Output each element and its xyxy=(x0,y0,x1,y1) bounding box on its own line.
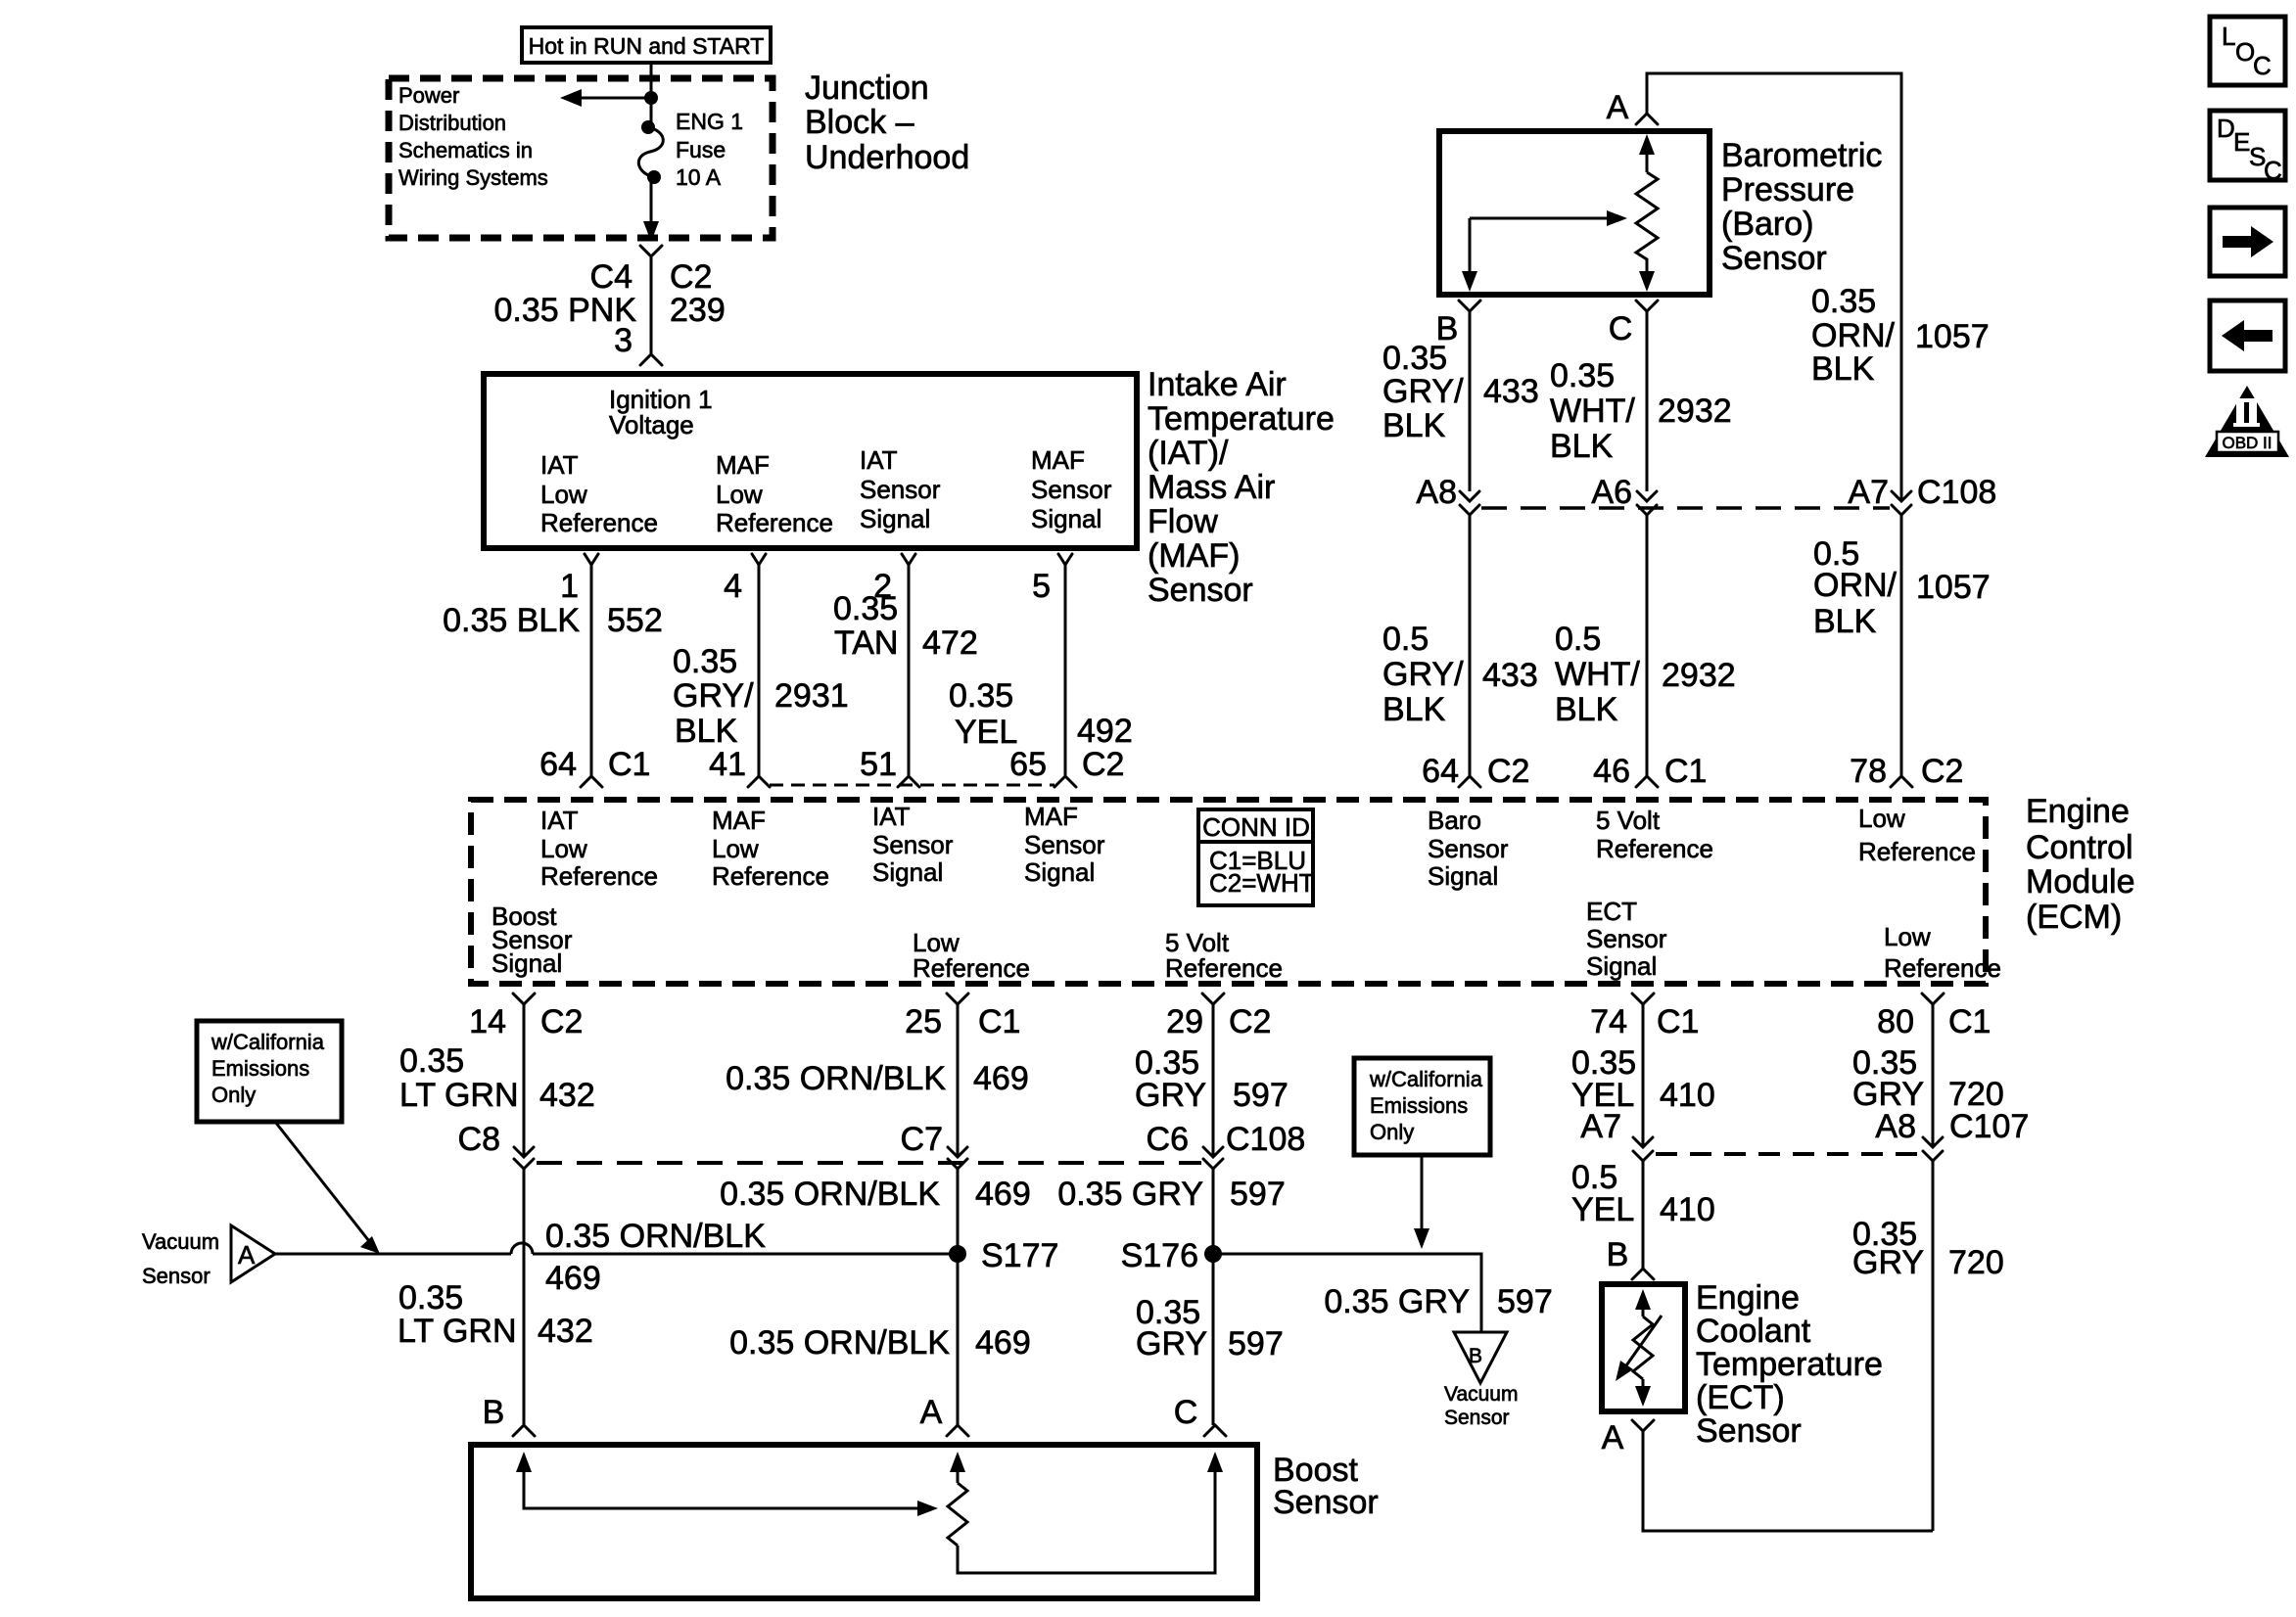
ECM pin label: Baro Sensor Signal xyxy=(1428,806,1509,891)
svg-text:Underhood: Underhood xyxy=(805,139,969,176)
svg-text:Sensor: Sensor xyxy=(1148,572,1253,609)
svg-text:C2=WHT: C2=WHT xyxy=(1209,868,1315,898)
svg-text:0.35 ORN/BLK: 0.35 ORN/BLK xyxy=(545,1218,766,1255)
label: 0.35 ORN/BLK 469 (lower) xyxy=(729,1324,1031,1362)
label: 0.5 YEL 410 (lower) xyxy=(1571,1159,1715,1228)
svg-text:239: 239 xyxy=(670,292,726,329)
svg-text:Reference: Reference xyxy=(1884,953,2001,983)
svg-text:Low: Low xyxy=(712,834,759,863)
ECM pin label: Low Reference (bottom mid-left) xyxy=(913,928,1030,983)
svg-text:A8: A8 xyxy=(1875,1108,1916,1145)
svg-text:C107: C107 xyxy=(1949,1108,2029,1145)
svg-text:Flow: Flow xyxy=(1148,503,1218,540)
svg-text:2931: 2931 xyxy=(774,677,849,715)
wire: low reference mid to S177 and below (0.35 ORN/BLK 469) xyxy=(957,1169,960,1425)
svg-text:LT GRN: LT GRN xyxy=(398,1313,517,1350)
svg-text:Pressure: Pressure xyxy=(1721,171,1854,208)
splice S177 xyxy=(949,1237,1058,1274)
svg-text:B: B xyxy=(1607,1236,1629,1273)
label: 0.35 YEL 410 (upper) xyxy=(1571,1044,1715,1114)
svg-text:C1: C1 xyxy=(978,1003,1020,1040)
svg-text:C: C xyxy=(2264,156,2282,185)
in-line connector breaks at A7 (lower) xyxy=(1633,1137,1653,1161)
svg-text:Only: Only xyxy=(1370,1120,1414,1144)
svg-text:Reference: Reference xyxy=(712,861,829,891)
svg-text:Block –: Block – xyxy=(805,104,914,141)
svg-text:Module: Module xyxy=(2026,863,2135,901)
label: 0.35 ORN/BLK (on vacuum branch) xyxy=(545,1218,766,1255)
svg-text:Reference: Reference xyxy=(1858,837,1976,866)
svg-text:Control: Control xyxy=(2026,829,2133,866)
svg-text:Signal: Signal xyxy=(1031,504,1101,533)
wire: Baro B to in-line connector A8 (GRY/BLK 433) xyxy=(1469,311,1472,491)
label: pin A (ECT) xyxy=(1602,1419,1624,1456)
power feed box "Hot in RUN and START" xyxy=(522,27,771,63)
svg-text:GRY: GRY xyxy=(1136,1325,1207,1363)
svg-text:78: 78 xyxy=(1850,753,1887,790)
label: Vacuum Sensor (A) xyxy=(142,1229,219,1288)
svg-text:ORN/: ORN/ xyxy=(1813,567,1898,604)
svg-text:C4: C4 xyxy=(590,258,633,296)
icon: forward arrow box xyxy=(2210,208,2285,276)
label: 0.35 WHT/BLK 2932 xyxy=(1550,357,1732,465)
svg-text:WHT/: WHT/ xyxy=(1550,393,1635,430)
svg-text:Sensor: Sensor xyxy=(142,1264,211,1288)
in-line connector dashed line (C108 left section) xyxy=(537,1161,1201,1165)
svg-text:GRY/: GRY/ xyxy=(1382,373,1464,410)
svg-text:Engine: Engine xyxy=(2026,793,2130,830)
ECT sensor box xyxy=(1602,1284,1685,1411)
label: C7 xyxy=(901,1121,943,1158)
label: 0.35 GRY/BLK 433 xyxy=(1382,340,1539,444)
note: Power Distribution Schematics in Wiring Systems xyxy=(398,83,548,190)
svg-text:C: C xyxy=(2253,51,2272,80)
svg-text:Low: Low xyxy=(1858,804,1905,833)
svg-text:Sensor: Sensor xyxy=(1024,830,1105,859)
svg-text:0.35: 0.35 xyxy=(399,1042,464,1080)
svg-text:IAT: IAT xyxy=(860,445,898,475)
wire: hot feed into junction block xyxy=(650,62,653,125)
pin labels 64 C1 41 51 65 C2 (ECM top left) xyxy=(539,746,1124,783)
svg-text:MAF: MAF xyxy=(712,806,766,835)
svg-text:1057: 1057 xyxy=(1916,569,1991,606)
wire: pin 2 IAT signal (0.35 TAN 472) xyxy=(898,554,919,787)
wire: Baro pin A up and over to ECM pin 78 (ORN/BLK 1057) xyxy=(1636,73,1901,501)
ECM bottom pin break 74 C1 xyxy=(1590,993,1699,1040)
svg-text:C2: C2 xyxy=(1082,746,1124,783)
svg-text:597: 597 xyxy=(1497,1283,1553,1320)
svg-text:0.35 ORN/BLK: 0.35 ORN/BLK xyxy=(720,1176,940,1213)
svg-text:C1: C1 xyxy=(1664,753,1707,790)
svg-text:Low: Low xyxy=(716,480,763,509)
ECM pin label: IAT Sensor Signal xyxy=(872,802,954,887)
label: 0.35 GRY/BLK 2931 xyxy=(673,643,849,750)
label: 0.35 GRY 720 (upper) xyxy=(1852,1044,2004,1113)
svg-text:C2: C2 xyxy=(1487,753,1529,790)
svg-text:5: 5 xyxy=(1032,568,1051,605)
label: ENG 1 Fuse 10 A xyxy=(676,109,743,190)
svg-text:Power: Power xyxy=(398,83,459,108)
svg-text:Only: Only xyxy=(211,1083,256,1107)
svg-text:597: 597 xyxy=(1230,1176,1286,1213)
label: 0.35 GRY 597 (vacuum branch) xyxy=(1324,1283,1552,1320)
svg-text:Distribution: Distribution xyxy=(398,111,506,135)
svg-text:469: 469 xyxy=(975,1324,1031,1362)
svg-text:Junction: Junction xyxy=(805,69,929,107)
pin label: MAF Low Reference (sensor) xyxy=(716,450,833,537)
svg-text:Sensor: Sensor xyxy=(1696,1412,1802,1450)
pin labels A8 A6 A7 C108 (in-line connector) xyxy=(1416,474,1996,511)
note box: w/California Emissions Only (left) xyxy=(197,1021,342,1122)
ECM pin label: ECT Sensor Signal xyxy=(1586,897,1667,981)
svg-text:41: 41 xyxy=(709,746,746,783)
svg-text:469: 469 xyxy=(545,1260,601,1297)
pin label: MAF Sensor Signal (sensor) xyxy=(1031,445,1112,533)
svg-text:A7: A7 xyxy=(1580,1108,1621,1145)
svg-text:Barometric: Barometric xyxy=(1721,137,1882,174)
svg-text:Temperature: Temperature xyxy=(1148,400,1335,438)
ECM pin label: IAT Low Reference xyxy=(540,806,658,891)
label: Junction Block - Underhood xyxy=(805,69,969,176)
svg-text:Reference: Reference xyxy=(1165,953,1283,983)
off-page connector triangle A (vacuum sensor) xyxy=(231,1225,275,1282)
svg-text:Fuse: Fuse xyxy=(676,137,726,162)
svg-text:BLK: BLK xyxy=(1382,691,1446,728)
svg-text:LT GRN: LT GRN xyxy=(399,1077,519,1114)
arrow from California note to wire 469 xyxy=(275,1122,380,1254)
svg-text:D: D xyxy=(2217,114,2235,143)
svg-text:Mass Air: Mass Air xyxy=(1148,469,1275,506)
wire: fuse output down with arrow xyxy=(643,177,659,242)
svg-text:C6: C6 xyxy=(1147,1121,1189,1158)
svg-text:MAF: MAF xyxy=(1024,802,1078,831)
svg-text:433: 433 xyxy=(1483,373,1539,410)
wire: ECT signal lower (0.5 YEL 410) xyxy=(1642,1161,1645,1269)
svg-text:OBD II: OBD II xyxy=(2222,434,2272,452)
svg-text:410: 410 xyxy=(1660,1191,1715,1228)
svg-text:GRY: GRY xyxy=(1135,1077,1206,1114)
off-page connector triangle B (vacuum sensor) xyxy=(1454,1332,1507,1383)
svg-text:C7: C7 xyxy=(901,1121,943,1158)
label: Vacuum Sensor (B) xyxy=(1444,1383,1518,1429)
svg-text:Engine: Engine xyxy=(1696,1279,1800,1317)
svg-text:Wiring Systems: Wiring Systems xyxy=(398,165,548,190)
label: pin A (Baro) xyxy=(1607,89,1629,126)
svg-text:Signal: Signal xyxy=(1024,857,1095,887)
in-line connector dashed (sensor connector) xyxy=(770,784,1054,787)
label: 0.35 LT GRN 432 (upper) xyxy=(399,1042,595,1114)
svg-text:0.35: 0.35 xyxy=(1382,340,1447,377)
svg-text:Low: Low xyxy=(540,480,587,509)
Boost sensor box xyxy=(471,1445,1257,1598)
connector break above boost box pin C xyxy=(1174,1394,1226,1436)
label: 0.35 GRY 597 (middle) xyxy=(1057,1176,1285,1213)
svg-text:0.35 ORN/BLK: 0.35 ORN/BLK xyxy=(729,1324,950,1362)
label: Engine Control Module (ECM) xyxy=(2026,793,2135,936)
label: Engine Coolant Temperature (ECT) Sensor xyxy=(1696,1279,1883,1450)
connector break above boost box pin B xyxy=(483,1394,535,1436)
label: pin B (ECT) xyxy=(1607,1236,1629,1273)
label: Intake Air Temperature (IAT)/Mass Air Flow (MAF) Sensor xyxy=(1148,366,1335,609)
in-line connector breaks at A8 xyxy=(1460,491,1479,515)
svg-text:Sensor: Sensor xyxy=(1428,834,1509,863)
svg-text:MAF: MAF xyxy=(1031,445,1085,475)
in-line connector dashed line (C107) xyxy=(1656,1152,1921,1156)
svg-text:0.35 BLK: 0.35 BLK xyxy=(443,602,580,639)
svg-text:C1: C1 xyxy=(608,746,650,783)
svg-text:B: B xyxy=(1469,1345,1482,1367)
svg-text:C: C xyxy=(1609,310,1633,347)
label: Barometric Pressure (Baro) Sensor xyxy=(1721,137,1882,277)
in-line connector breaks at A7 xyxy=(1892,491,1911,515)
icon: back arrow box xyxy=(2210,300,2285,371)
label: 469 (below vacuum branch) xyxy=(545,1260,601,1297)
svg-text:2932: 2932 xyxy=(1662,657,1736,694)
svg-text:0.5: 0.5 xyxy=(1382,621,1429,658)
svg-text:0.35: 0.35 xyxy=(833,590,898,627)
svg-text:Reference: Reference xyxy=(1596,834,1713,863)
svg-text:0.35 ORN/BLK: 0.35 ORN/BLK xyxy=(726,1060,946,1097)
in-line connector breaks at C8 xyxy=(514,1147,534,1169)
Baro sensor box xyxy=(1439,131,1710,295)
svg-text:Intake Air: Intake Air xyxy=(1148,366,1287,403)
svg-text:Reference: Reference xyxy=(913,953,1030,983)
label: 0.35 PNK 239 xyxy=(493,292,725,329)
ECM bottom pin break 14 C2 xyxy=(469,993,583,1040)
svg-text:YEL: YEL xyxy=(1571,1191,1634,1228)
svg-text:TAN: TAN xyxy=(834,624,898,662)
ECM pin label: Boost Sensor Signal xyxy=(492,901,573,978)
svg-text:C1: C1 xyxy=(1948,1003,1991,1040)
wire: boost sensor signal lower (0.35 LT GRN 432) xyxy=(523,1169,526,1425)
svg-text:469: 469 xyxy=(975,1176,1031,1213)
svg-text:(Baro): (Baro) xyxy=(1721,206,1813,243)
svg-text:410: 410 xyxy=(1660,1077,1715,1114)
svg-text:29: 29 xyxy=(1166,1003,1203,1040)
icon: DESC reference box xyxy=(2210,111,2285,185)
connector break C2 (IAT/MAF sensor side) xyxy=(640,354,662,365)
wire: 0.5 GRY/BLK 433 to ECM 64 C2 xyxy=(1459,515,1480,787)
Boost internal: potentiometer resistor and pin C return xyxy=(948,1452,1223,1573)
wire: S176 to vacuum sensor B (0.35 GRY 597) xyxy=(1213,1254,1481,1332)
svg-text:IAT: IAT xyxy=(872,802,911,831)
svg-text:0.5: 0.5 xyxy=(1555,621,1601,658)
svg-text:C108: C108 xyxy=(1917,474,1996,511)
svg-text:Signal: Signal xyxy=(860,504,930,533)
label: 0.5 GRY/BLK 433 xyxy=(1382,621,1538,728)
svg-text:BLK: BLK xyxy=(1555,691,1618,728)
Boost internal: pin B feed and wiper arrow xyxy=(516,1452,938,1516)
connector break above ECT box xyxy=(1632,1269,1654,1279)
svg-text:46: 46 xyxy=(1593,753,1630,790)
svg-text:Temperature: Temperature xyxy=(1696,1346,1883,1383)
svg-text:E: E xyxy=(2233,127,2250,157)
svg-text:3: 3 xyxy=(614,322,633,359)
svg-text:80: 80 xyxy=(1877,1003,1914,1040)
svg-text:(ECT): (ECT) xyxy=(1696,1379,1785,1416)
wire: vacuum sensor A to S177 with hop over boost wire xyxy=(275,1243,958,1254)
label: Ignition 1 Voltage xyxy=(609,385,713,439)
svg-text:1: 1 xyxy=(560,568,579,605)
wire: ECT signal upper (0.35 YEL 410) xyxy=(1642,1004,1645,1147)
svg-text:Reference: Reference xyxy=(716,508,833,537)
svg-text:Low: Low xyxy=(1884,922,1931,951)
in-line connector breaks at C7 xyxy=(948,1147,967,1169)
ECM pin label: Low Reference (bottom right) xyxy=(1884,922,2001,983)
svg-text:597: 597 xyxy=(1228,1325,1284,1363)
svg-text:432: 432 xyxy=(539,1077,595,1114)
svg-text:552: 552 xyxy=(607,602,663,639)
svg-text:(IAT)/: (IAT)/ xyxy=(1148,435,1229,472)
label: 0.35 GRY 597 (upper) xyxy=(1135,1044,1289,1114)
wire: low reference upper (0.35 ORN/BLK 469) xyxy=(957,1004,960,1157)
svg-text:Coolant: Coolant xyxy=(1696,1313,1811,1350)
svg-text:Emissions: Emissions xyxy=(211,1056,309,1081)
svg-text:GRY: GRY xyxy=(1852,1244,1924,1281)
svg-text:C1: C1 xyxy=(1657,1003,1699,1040)
label: C8 xyxy=(458,1121,500,1158)
svg-text:Vacuum: Vacuum xyxy=(1444,1383,1518,1406)
svg-text:64: 64 xyxy=(1422,753,1459,790)
label: 0.5 WHT/BLK 2932 xyxy=(1555,621,1736,728)
label: 0.35 BLK 552 xyxy=(443,602,663,639)
svg-text:C2: C2 xyxy=(670,258,712,296)
svg-text:A: A xyxy=(238,1240,256,1270)
svg-text:Signal: Signal xyxy=(872,857,943,887)
svg-text:Sensor: Sensor xyxy=(1444,1407,1510,1429)
ECM bottom pin break 80 C1 xyxy=(1877,993,1991,1040)
splice S176 xyxy=(1121,1237,1222,1274)
Baro internal: potentiometer resistor with arrows xyxy=(1636,134,1658,292)
wire: branch arrow to other circuits xyxy=(560,89,651,107)
connector break below ECT box xyxy=(1632,1420,1654,1431)
svg-text:C108: C108 xyxy=(1226,1121,1305,1158)
label: C4 / C2 connector names xyxy=(590,258,713,296)
svg-text:Sensor: Sensor xyxy=(1721,240,1827,277)
pin numbers 1 4 2 5 xyxy=(560,568,1051,605)
CONN ID legend box xyxy=(1198,809,1315,905)
svg-text:ENG 1: ENG 1 xyxy=(676,109,743,134)
svg-text:ORN/: ORN/ xyxy=(1811,317,1896,354)
svg-text:51: 51 xyxy=(860,746,897,783)
label: pin B (Baro) xyxy=(1436,310,1459,347)
svg-text:BLK: BLK xyxy=(1550,428,1614,465)
svg-text:4: 4 xyxy=(724,568,742,605)
svg-text:IAT: IAT xyxy=(540,806,579,835)
in-line connector dashed line (C108) xyxy=(1481,506,1890,510)
fuse ENG 1 10 A xyxy=(638,120,663,184)
svg-text:IAT: IAT xyxy=(540,450,579,480)
svg-text:Reference: Reference xyxy=(540,508,658,537)
label: A8 C107 xyxy=(1875,1108,2029,1145)
ECM pin label: 5 Volt Reference (top) xyxy=(1596,806,1713,863)
node: feed junction dot xyxy=(644,91,658,105)
ECM pin label: MAF Low Reference xyxy=(712,806,829,891)
svg-text:Reference: Reference xyxy=(540,861,658,891)
in-line connector breaks at A8 (lower) xyxy=(1923,1137,1943,1161)
svg-text:S176: S176 xyxy=(1121,1237,1198,1274)
svg-text:A7: A7 xyxy=(1848,474,1889,511)
junction block dashed enclosure xyxy=(389,78,773,238)
svg-text:10 A: 10 A xyxy=(676,164,722,190)
svg-text:Voltage: Voltage xyxy=(609,410,694,439)
svg-text:w/California: w/California xyxy=(211,1030,325,1054)
wire: pin 5 MAF signal (0.35 YEL 492) xyxy=(1054,554,1076,787)
svg-text:Sensor: Sensor xyxy=(872,830,954,859)
svg-text:C2: C2 xyxy=(540,1003,583,1040)
svg-text:MAF: MAF xyxy=(716,450,770,480)
svg-text:Emissions: Emissions xyxy=(1370,1093,1468,1118)
svg-text:GRY/: GRY/ xyxy=(673,677,754,715)
label: 0.35 LT GRN 432 (lower) xyxy=(398,1279,593,1350)
svg-text:0.35: 0.35 xyxy=(1550,357,1615,394)
IAT/MAF sensor box xyxy=(484,374,1137,548)
svg-text:(MAF): (MAF) xyxy=(1148,537,1240,575)
svg-text:ECT: ECT xyxy=(1586,897,1637,926)
svg-text:YEL: YEL xyxy=(955,714,1017,751)
svg-text:Baro: Baro xyxy=(1428,806,1481,835)
label: 0.35 GRY 597 (lower) xyxy=(1136,1294,1284,1363)
svg-text:492: 492 xyxy=(1077,713,1133,750)
svg-text:A6: A6 xyxy=(1591,474,1632,511)
ECM pin label: 5 Volt Reference (bottom) xyxy=(1165,928,1283,983)
wire: pin 4 MAF low ref (0.35 GRY/BLK 2931) xyxy=(748,554,770,787)
wire: low reference lower (0.35 GRY 720) xyxy=(1932,1161,1935,1531)
ECM bottom pin break 25 C1 xyxy=(905,993,1020,1040)
svg-text:w/California: w/California xyxy=(1369,1067,1483,1091)
svg-text:C: C xyxy=(1174,1394,1198,1431)
svg-text:Signal: Signal xyxy=(492,948,562,978)
label: pin C (Baro) xyxy=(1609,310,1633,347)
connector break above boost box pin A xyxy=(920,1394,968,1436)
svg-text:C2: C2 xyxy=(1921,753,1963,790)
label: 0.35 ORN/BLK 469 (middle) xyxy=(720,1176,1031,1213)
wire: pin 1 IAT low ref (0.35 BLK 552) xyxy=(581,554,602,787)
svg-text:CONN ID: CONN ID xyxy=(1202,812,1310,842)
label: Boost Sensor xyxy=(1273,1452,1379,1521)
svg-text:C2: C2 xyxy=(1229,1003,1271,1040)
label: 0.35 GRY 720 (lower) xyxy=(1852,1216,2004,1281)
svg-text:64: 64 xyxy=(539,746,577,783)
label: 0.35 ORN/BLK 469 (upper) xyxy=(726,1060,1029,1097)
svg-text:472: 472 xyxy=(922,624,978,662)
svg-text:BLK: BLK xyxy=(1382,407,1446,444)
svg-text:A8: A8 xyxy=(1416,474,1457,511)
svg-text:74: 74 xyxy=(1590,1003,1627,1040)
wire: Baro C to in-line connector A6 (WHT/BLK 2932) xyxy=(1646,311,1649,491)
ECM bottom pin break 29 C2 xyxy=(1166,993,1271,1040)
label: 0.35 YEL 492 xyxy=(949,677,1133,751)
svg-text:BLK: BLK xyxy=(675,713,738,750)
label: circuit 3 xyxy=(614,322,633,359)
svg-text:14: 14 xyxy=(469,1003,506,1040)
svg-text:0.35: 0.35 xyxy=(1811,283,1876,320)
connector break below Baro pin B xyxy=(1459,300,1480,311)
wire: PNK 239 circuit 3 xyxy=(650,256,653,354)
svg-text:1057: 1057 xyxy=(1915,318,1990,355)
svg-text:A: A xyxy=(1602,1419,1624,1456)
svg-text:Low: Low xyxy=(540,834,587,863)
label: 0.5 ORN/BLK 1057 xyxy=(1813,535,1991,640)
in-line connector breaks at C6 xyxy=(1203,1147,1223,1169)
wire: boost sensor signal upper (0.35 LT GRN 432) xyxy=(523,1004,526,1157)
pin label: IAT Low Reference (sensor) xyxy=(540,450,658,537)
ECT internal: thermistor symbol xyxy=(1616,1289,1662,1407)
svg-text:65: 65 xyxy=(1009,746,1047,783)
label: A7 (lower connector) xyxy=(1580,1108,1621,1145)
svg-text:BLK: BLK xyxy=(1811,350,1875,388)
svg-text:597: 597 xyxy=(1233,1077,1289,1114)
